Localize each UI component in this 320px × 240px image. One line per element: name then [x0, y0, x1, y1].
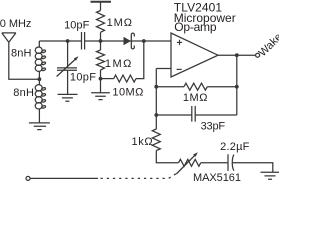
svg-text:8nH: 8nH — [11, 48, 32, 60]
capacitor C3 33pF plates — [192, 106, 195, 122]
wire control solid — [30, 177, 98, 179]
svg-text:10pF: 10pF — [70, 71, 96, 83]
resistor R1 1M (vertical) — [97, 11, 105, 33]
svg-text:MAX5161: MAX5161 — [193, 172, 241, 181]
resistor R2 1M (vertical) — [97, 50, 105, 70]
svg-text:33pF: 33pF — [201, 121, 226, 133]
op-amp minus sign — [177, 68, 182, 70]
svg-text:0 MHz: 0 MHz — [0, 18, 31, 30]
resistor R3 10M (horizontal) — [114, 75, 136, 82]
resistor R5 1k (vertical) — [152, 129, 160, 151]
wire R2 node to 10M resistor — [101, 78, 114, 80]
node junction left rail / 1M feedback — [154, 85, 158, 89]
wire main to R2 — [100, 41, 102, 50]
op-amp plus sign — [177, 40, 182, 45]
node junction output — [235, 53, 239, 57]
node junction var-cap tap — [66, 39, 70, 43]
wire pot to 2.2uF — [201, 162, 228, 164]
ground under R2 — [91, 93, 110, 100]
wire R2 bottom — [100, 70, 102, 93]
capacitor C4 2.2uF curved plate — [232, 155, 234, 171]
capacitor C2 10pF variable plates — [57, 68, 77, 70]
wire inductor rail top — [38, 41, 40, 47]
node junction R1/R2 on main wire — [99, 39, 103, 43]
svg-text:1MΩ: 1MΩ — [105, 58, 131, 70]
ground right — [261, 172, 282, 179]
terminal output circle — [256, 53, 260, 57]
svg-text:2.2µF: 2.2µF — [220, 141, 250, 153]
ground under variable cap — [58, 94, 78, 101]
wire 2.2uF to ground — [233, 163, 273, 173]
inductor L1 8nH (loops) — [35, 47, 46, 71]
svg-text:1kΩ: 1kΩ — [132, 136, 153, 148]
wire L2 to ground — [38, 109, 40, 123]
node junction between inductors — [38, 77, 42, 81]
wire op-amp output — [218, 54, 256, 56]
svg-text:10MΩ: 10MΩ — [112, 87, 143, 99]
wire right feedback rail — [236, 55, 238, 115]
svg-text:1MΩ: 1MΩ — [183, 92, 208, 104]
wire 10M to diode node — [136, 41, 144, 79]
label TLV2401 title — [174, 0, 236, 34]
diode D1 (Schottky) anode triangle — [124, 37, 131, 46]
wire feedback resistor leads — [156, 86, 237, 88]
capacitor C1 10pF plates — [82, 32, 85, 50]
op-amp U1 TLV2401 triangle — [171, 33, 218, 77]
arrow of variable capacitor — [57, 59, 76, 77]
ground under L2 — [29, 123, 50, 130]
wire inverting input — [156, 68, 171, 70]
wire antenna lead — [9, 42, 40, 79]
svg-text:10pF: 10pF — [64, 19, 89, 31]
wire control dashed — [101, 174, 177, 179]
wire var-cap rail — [67, 41, 69, 94]
wire 33pF branch — [156, 114, 237, 116]
diode D1 cathode bar with hooks — [131, 33, 134, 49]
inductor L2 8nH (loops) — [35, 85, 46, 109]
potentiometer MAX5161 zigzag — [179, 159, 201, 166]
wire main horizontal right segment — [85, 40, 171, 42]
svg-text:1MΩ: 1MΩ — [107, 17, 132, 29]
wire left feedback rail — [155, 69, 157, 130]
wire between inductors — [38, 71, 40, 84]
svg-text:Op-amp: Op-amp — [174, 20, 217, 34]
resistor R4 1M feedback (horizontal) — [184, 83, 207, 90]
wire main horizontal left segment — [39, 40, 81, 42]
power rail bar top — [91, 1, 112, 3]
wire R1 to main — [100, 32, 102, 41]
antenna — [2, 33, 16, 42]
node junction left rail / 33pF — [154, 113, 158, 117]
node junction diode cathode — [142, 39, 146, 43]
svg-text:8nH: 8nH — [13, 87, 34, 99]
terminal control input circle — [26, 176, 30, 180]
node junction R2 / 10M / ground — [99, 77, 103, 81]
wire rail to R1 — [100, 2, 102, 11]
wire 1k lead bottom — [156, 151, 178, 163]
node junction right rail / 1M feedback — [235, 85, 239, 89]
svg-text:Wake-up: Wake-up — [257, 20, 279, 59]
potentiometer wiper arrow — [176, 155, 194, 174]
capacitor C4 2.2uF left plate — [227, 154, 229, 171]
